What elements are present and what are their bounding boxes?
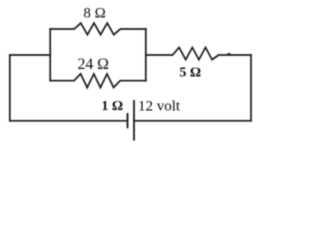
node left edge of parallel combination: [49, 29, 51, 81]
resistor R1 8 ohm (top branch with leads): [50, 23, 146, 35]
svg-text:12 volt: 12 volt: [138, 99, 181, 115]
battery B1 short plate (negative): [127, 114, 129, 127]
resistor R3 5 ohm (right series branch with leads): [146, 48, 251, 60]
battery B1 long plate (positive): [133, 101, 135, 140]
current arrow on right wire: [227, 53, 232, 56]
svg-text:8 Ω: 8 Ω: [83, 6, 105, 22]
svg-text:24 Ω: 24 Ω: [77, 56, 109, 73]
wire bottom right (battery to right corner): [134, 120, 251, 122]
svg-text:1 Ω: 1 Ω: [101, 99, 123, 114]
wire left vertical: [9, 55, 11, 121]
resistor R2 24 ohm (bottom branch with leads): [50, 74, 146, 88]
wire bottom left (to battery): [10, 120, 128, 122]
node right edge of parallel combination: [145, 29, 147, 81]
wire right vertical: [250, 55, 252, 121]
wire top left horizontal (node to parallel box): [10, 54, 50, 56]
svg-text:5 Ω: 5 Ω: [179, 66, 201, 81]
